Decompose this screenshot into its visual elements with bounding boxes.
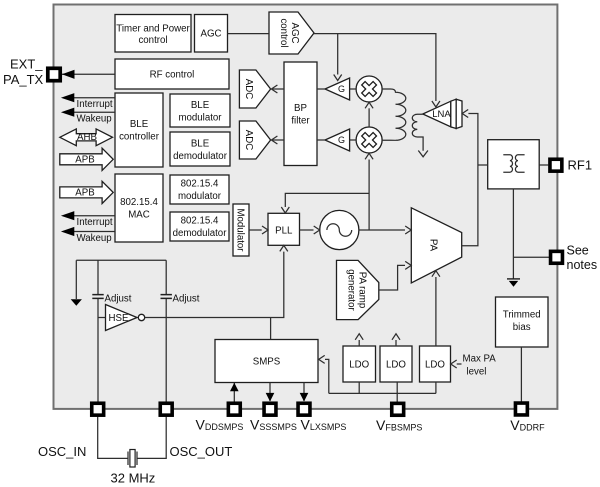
svg-text:controller: controller [119,132,160,143]
svg-text:G: G [338,135,345,145]
svg-text:BP: BP [294,103,307,114]
HSE oscillator inverter [106,305,145,331]
block: Trimmed bias [496,297,549,347]
arrowhead LDO1 up [355,334,363,340]
block: Timer and Power control [115,15,191,53]
chip body [54,5,558,409]
wire HSE input [98,317,106,319]
svg-text:VFBSMPS: VFBSMPS [376,417,422,433]
svg-text:ADC: ADC [243,130,254,150]
svg-text:APB: APB [75,155,94,166]
svg-text:level: level [467,367,487,378]
wire PLL to oscillator [300,229,314,231]
wire crystal top bus [76,259,166,261]
arrowhead into ADC I [271,85,277,93]
svg-text:AHB: AHB [77,132,97,143]
svg-text:Modulator: Modulator [235,208,246,252]
svg-text:PA: PA [428,239,439,252]
svg-text:filter: filter [291,116,310,127]
solid arrowhead VLXSMPS [300,393,309,402]
wire LO vertical to mixer M2 [368,160,370,230]
wire branch to PLL top [285,193,369,207]
svg-text:Max PA: Max PA [463,354,497,365]
PA ramp generator [337,260,379,319]
svg-text:RF1: RF1 [568,158,593,173]
svg-text:802.15.4: 802.15.4 [181,179,219,190]
wire PA output to LNA input node [462,114,478,246]
block: Modulator (vertical) [233,204,249,256]
wire Modulator to PLL [249,229,262,231]
block: LDO 1 [343,346,376,382]
arrowhead into SMPS right [319,355,325,363]
arrowhead into oscillator [314,226,320,234]
svg-text:Adjust: Adjust [173,294,200,305]
wire AGC control to LNA [314,34,436,101]
wire mixer M1 to G1 [350,88,357,90]
wire oscillator to PA [359,229,405,231]
arrowhead into LDO3 right [451,360,457,368]
wire mixer M2 to G2 [350,139,357,141]
wire LDO2 up arrow [395,340,397,346]
transformer winding right [515,155,524,172]
svg-text:AGC: AGC [289,23,300,44]
wire to ground (osc) [75,260,77,299]
svg-text:BLE: BLE [191,100,210,111]
block: 802.15.4 modulator [170,175,229,204]
wire VDDSMPS arrow up [233,383,235,402]
pad VSSSMPS [264,403,276,415]
block: BLE modulator [170,94,230,127]
wire OSC_IN to crystal [98,416,128,459]
svg-text:VSSSMPS: VSSSMPS [250,417,297,433]
pad OSC_OUT [160,403,172,415]
svg-text:Wakeup: Wakeup [77,114,112,125]
svg-text:Trimmed: Trimmed [503,310,541,321]
pad RF1 [550,159,562,171]
APB arrow (BLE) [60,148,113,170]
svg-text:LDO: LDO [425,360,445,371]
wire LDO1 up arrow [358,340,360,346]
svg-text:bias: bias [513,322,531,333]
wire AGC to AGC control [228,33,270,35]
svg-text:notes: notes [567,258,598,272]
svg-text:BLE: BLE [130,119,149,130]
svg-text:802.15.4: 802.15.4 [120,197,158,208]
svg-text:Interrupt: Interrupt [77,99,113,110]
wire VFBSMPS stem [396,382,398,402]
wire LDO3 to PA [435,277,437,346]
svg-text:control: control [138,35,167,46]
pad EXT_PA_TX [48,68,60,80]
oscillator (VCO) [320,210,359,249]
arrowhead into mixer M1 [365,102,373,108]
svg-text:BLE: BLE [191,139,210,150]
pad VLXSMPS [298,403,310,415]
svg-text:AGC: AGC [201,29,222,40]
arrowhead into ADC Q [271,136,277,144]
svg-text:EXT_: EXT_ [10,57,43,72]
pentagon: ADC Q [239,121,270,159]
wire Max PA level arrow [457,363,462,365]
svg-text:APB: APB [75,188,94,199]
ground (balun) [507,279,520,287]
wire HSE output to PLL bottom [145,252,284,318]
wire HSE branch to SMPS top [270,318,272,340]
svg-text:VDDRF: VDDRF [510,417,545,433]
wire feedback LDO bus [325,359,436,393]
power amplifier PA [411,208,461,283]
svg-text:MAC: MAC [128,210,150,221]
svg-text:RF control: RF control [150,70,195,81]
arrowhead into PLL top [281,207,289,213]
wire BP filter to ADC Q [272,139,284,141]
block: LDO 3 [420,346,451,382]
amplifier G2 [325,129,350,151]
pentagon: ADC I [239,70,270,108]
wire G2 to BP filter [317,139,325,141]
wire Wakeup (BLE) [74,111,115,113]
solid arrowhead Wakeup (BLE) [61,108,74,117]
pad VDDSMPS [228,403,240,415]
arrowhead into mixer M2 [365,153,373,159]
wire Interrupt (MAC) [74,215,115,217]
arrowhead into LNA top [432,101,440,107]
wire VSSSMPS arrow down [269,383,271,401]
ground (osc) [71,299,82,306]
arrowhead into G1 top [334,75,342,81]
arrowhead into PLL left [262,226,268,234]
block: SMPS [215,340,318,383]
wire balun to RF1 pad [539,164,548,166]
wire VLXSMPS arrow down [303,383,305,401]
svg-text:PA ramp: PA ramp [357,272,368,308]
transformer winding left [503,155,512,172]
svg-text:OSC_IN: OSC_IN [38,444,86,459]
arrowhead into PA left [405,226,411,234]
block: RF control [115,59,229,89]
svg-text:demodulator: demodulator [173,228,228,239]
ground (LNA coil) [418,151,428,157]
block: BLE demodulator [170,132,230,166]
block: PLL [268,213,300,245]
pad See notes [551,251,563,263]
svg-text:LDO: LDO [386,360,406,371]
svg-text:SMPS: SMPS [253,357,281,368]
pentagon: AGC control [269,12,314,54]
block: BLE controller [115,93,163,167]
wire BP filter to ADC I [272,88,284,90]
wire G1 to BP filter [317,88,325,90]
block: BP filter [284,62,317,166]
svg-text:modulator: modulator [178,113,222,124]
wire node to balun left [478,164,488,166]
svg-text:PA_TX: PA_TX [3,72,44,87]
svg-text:demodulator: demodulator [173,151,228,162]
wire AGC branch to G1 [337,34,339,75]
capacitor Adjust right [161,295,172,299]
AHB double arrow [60,129,113,146]
wire balun bottom [512,189,514,279]
arrowhead into LNA right [462,110,468,118]
svg-text:Timer and Power: Timer and Power [116,24,190,35]
wire crystal to OSC_OUT [137,416,166,459]
solid arrowhead VDDSMPS [230,383,239,392]
arrowhead ramp into PA [405,261,411,269]
arrowhead into PLL bottom [280,245,288,251]
solid arrowhead Interrupt (MAC) [61,211,74,220]
wire Trimmed bias to VDDRF [520,347,522,402]
svg-text:Wakeup: Wakeup [77,233,112,244]
svg-text:control: control [278,18,289,47]
pad VFBSMPS [392,403,404,415]
mixer M2 [356,127,382,153]
svg-text:G: G [338,84,345,94]
pad OSC_IN [92,403,104,415]
svg-text:Adjust: Adjust [105,294,132,305]
svg-text:OSC_OUT: OSC_OUT [170,444,233,459]
wire to See notes pad [513,256,549,258]
wire Interrupt (BLE) [74,97,115,99]
LNA amplifier [423,99,462,128]
mixer M1 [356,76,382,102]
solid arrowhead Interrupt (BLE) [61,93,74,102]
block: 802.15.4 MAC [115,174,163,242]
svg-text:See: See [567,244,589,258]
wire OSC_IN vertical [97,260,99,403]
svg-text:HSE: HSE [109,313,129,324]
svg-text:VDDSMPS: VDDSMPS [196,417,244,433]
svg-text:Interrupt: Interrupt [77,217,113,228]
svg-text:PLL: PLL [275,225,293,236]
wire OSC_OUT vertical [165,260,167,403]
solid arrowhead VSSSMPS [266,393,275,402]
svg-text:generator: generator [346,269,357,311]
solid arrowhead Wakeup (MAC) [61,227,74,236]
amplifier G1 [325,78,350,100]
APB arrow (MAC) [60,181,113,203]
svg-text:32 MHz: 32 MHz [111,471,156,486]
capacitor Adjust left [92,295,103,299]
arrowhead into PA bottom [432,271,440,277]
block: LDO 2 [380,346,412,382]
svg-text:LNA: LNA [432,109,451,120]
svg-text:LDO: LDO [349,360,369,371]
svg-text:VLXSMPS: VLXSMPS [301,417,347,433]
pad VDDRF [515,403,527,415]
solid arrowhead at EXT_PA_TX [62,70,75,79]
wire between mixers [368,108,370,127]
block: balun (RF matching) [488,140,540,189]
coil secondary (LNA input) [412,114,423,151]
arrowhead LDO2 up [392,334,400,340]
block: AGC [195,15,228,53]
coil primary (mixer transformer) [382,89,406,140]
wire Wakeup (MAC) [74,231,115,233]
wire PA ramp generator to PA [379,265,405,290]
wire RF control to EXT_PA_TX [62,73,115,75]
block: 802.15.4 demodulator [170,212,229,241]
svg-text:modulator: modulator [178,191,222,202]
svg-text:802.15.4: 802.15.4 [181,216,219,227]
svg-text:ADC: ADC [243,79,254,99]
crystal 32 MHz [128,450,137,468]
